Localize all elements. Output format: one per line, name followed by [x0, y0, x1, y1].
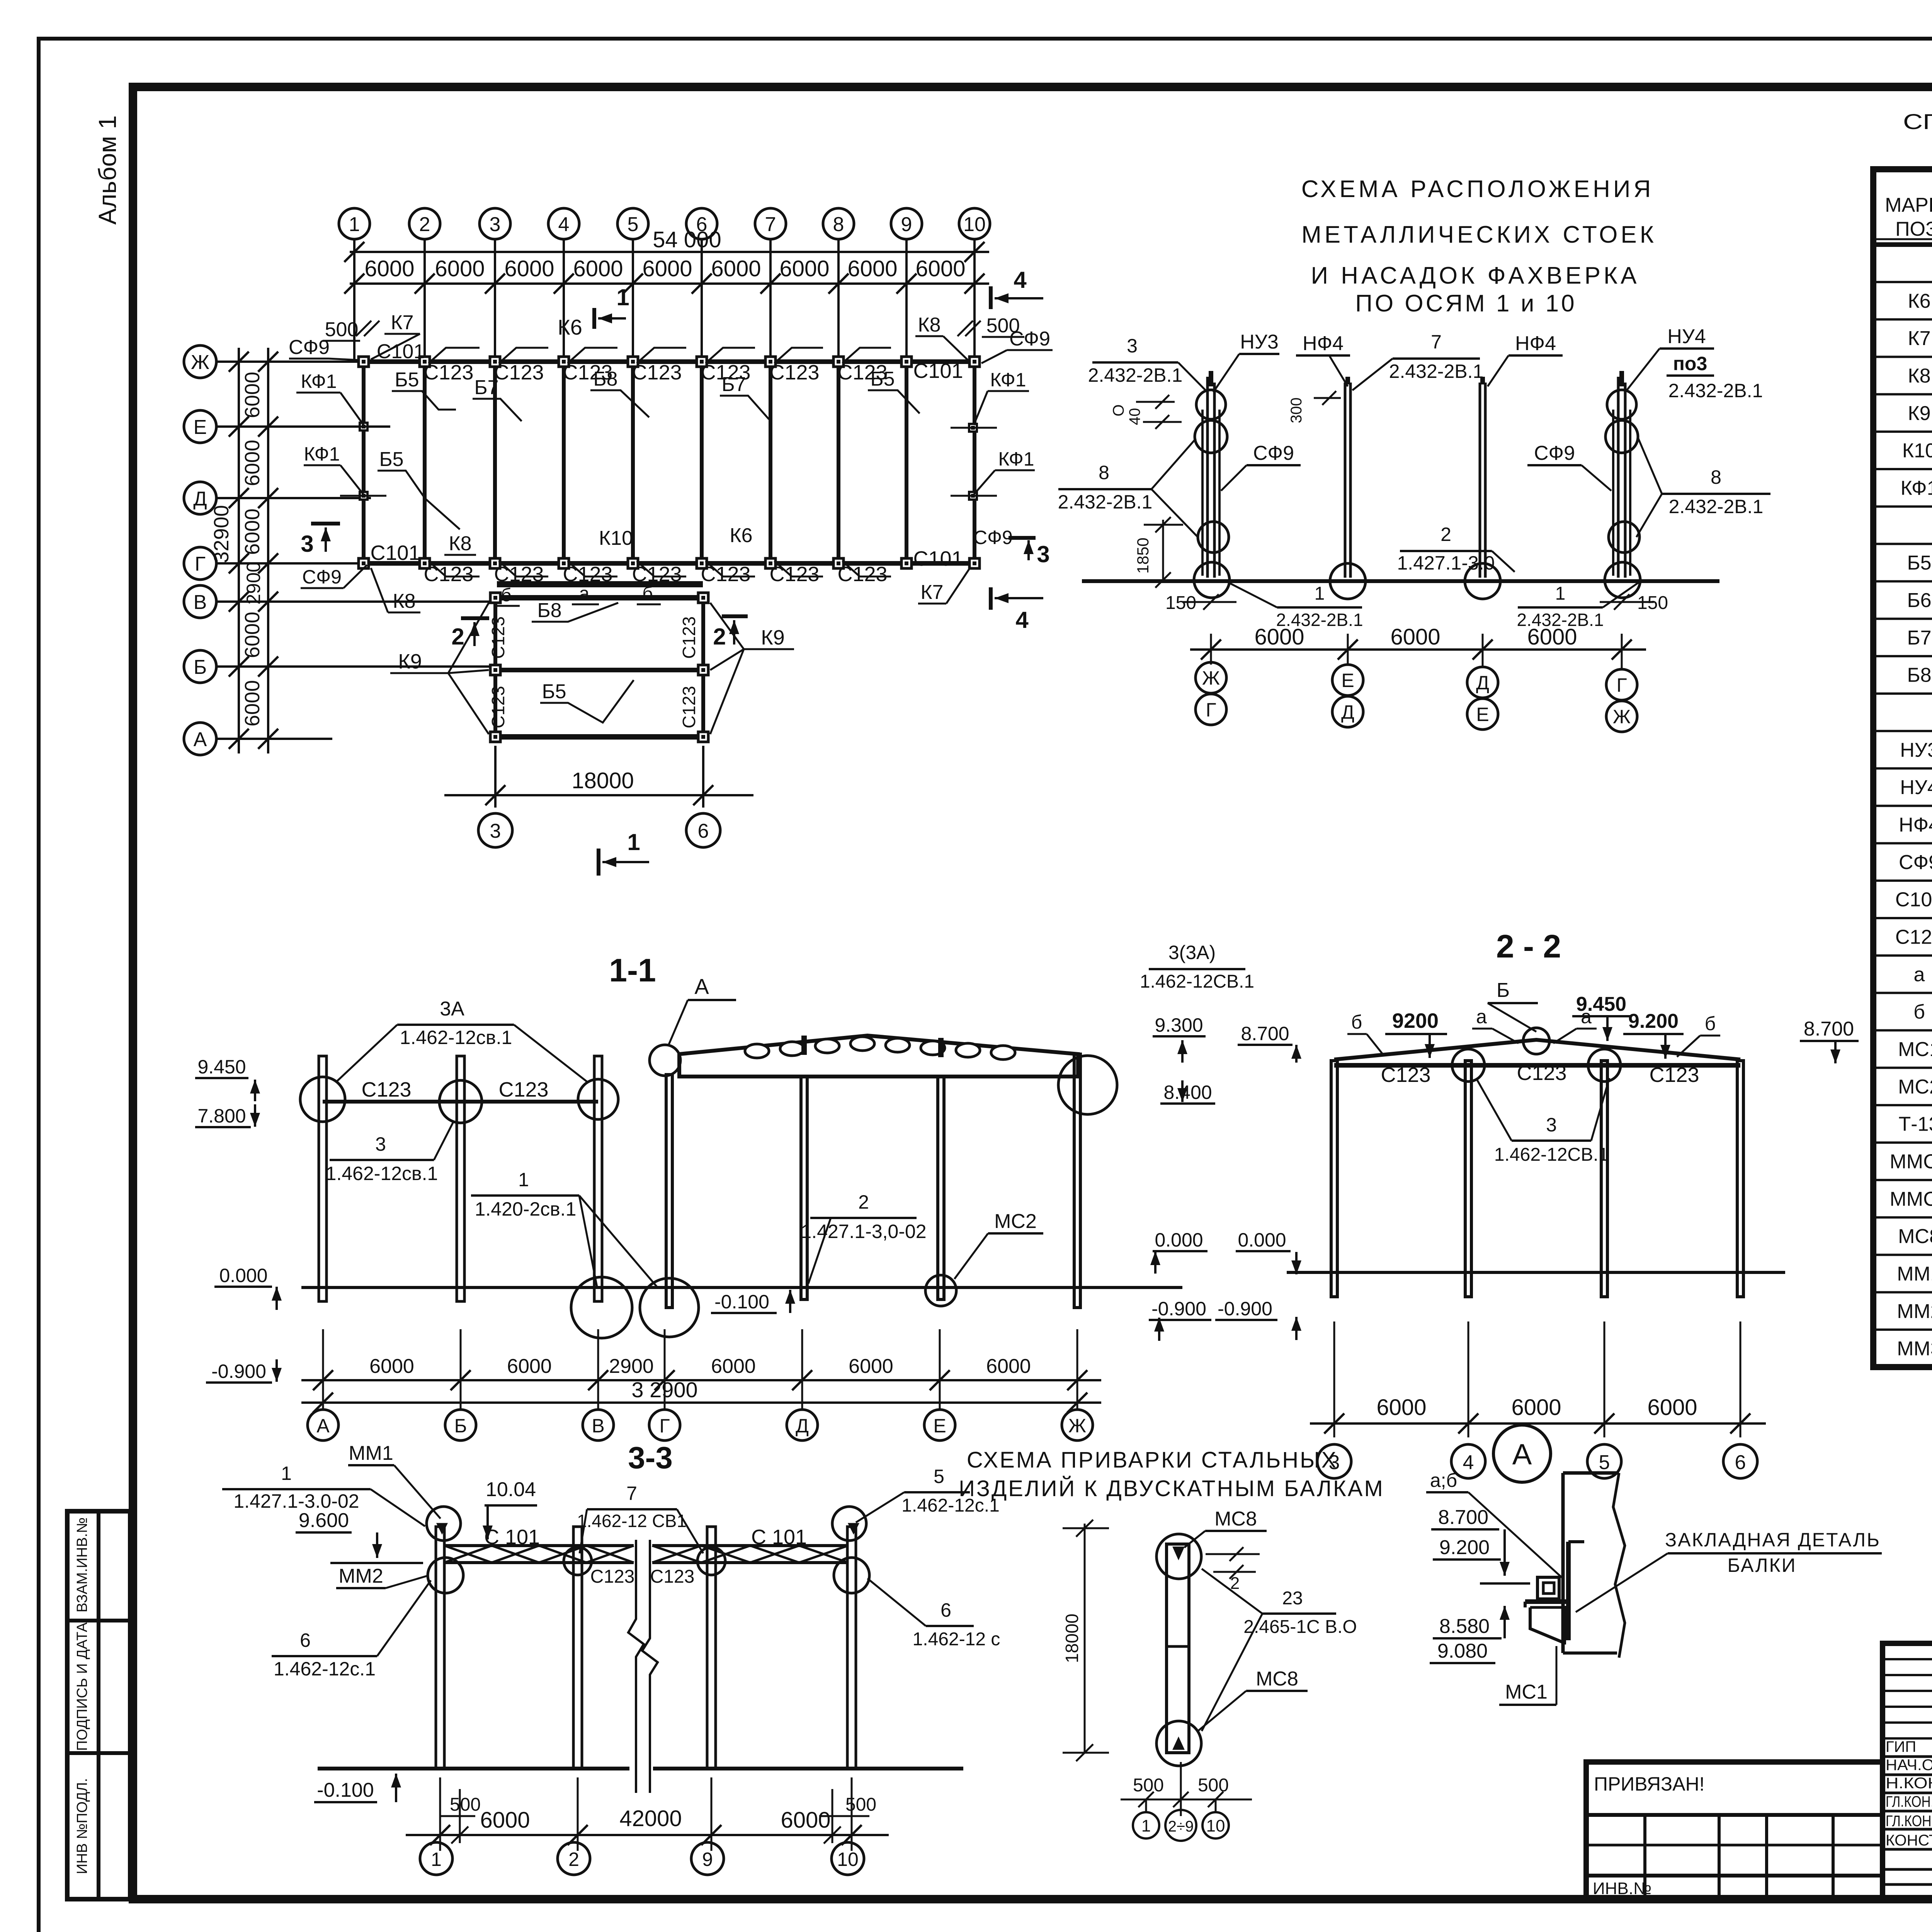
svg-text:НУ4: НУ4 [1667, 325, 1706, 348]
svg-text:23: 23 [1282, 1588, 1303, 1609]
svg-text:6000: 6000 [1376, 1395, 1426, 1420]
svg-text:Б: Б [194, 656, 207, 679]
svg-text:К8: К8 [918, 314, 940, 336]
section 3-3 callout circles [427, 1507, 461, 1541]
svg-text:0.000: 0.000 [219, 1265, 267, 1286]
svg-text:5: 5 [1599, 1451, 1610, 1474]
svg-text:2.432-2В.1: 2.432-2В.1 [1389, 361, 1484, 382]
plan: node squares on chords [359, 357, 369, 367]
detail А embedded plate [1566, 1542, 1571, 1640]
detail А support unit [1537, 1577, 1559, 1599]
svg-text:С101: С101 [1895, 889, 1932, 911]
svg-text:6000: 6000 [369, 1355, 414, 1378]
fachwerk callout circles post 1 [1196, 390, 1226, 419]
svg-text:ММ1: ММ1 [1897, 1263, 1932, 1285]
svg-text:6000: 6000 [435, 256, 485, 281]
svg-text:К9: К9 [761, 626, 785, 649]
svg-text:3: 3 [490, 213, 501, 236]
svg-text:6000: 6000 [241, 509, 264, 555]
svg-text:500: 500 [450, 1794, 481, 1815]
spec table frame [1873, 169, 1932, 1367]
section 2-2 columns [1331, 1061, 1337, 1297]
svg-text:1.462-12 СВ1: 1.462-12 СВ1 [577, 1511, 687, 1531]
svg-text:2: 2 [1440, 524, 1451, 545]
svg-text:6000: 6000 [241, 440, 264, 486]
svg-text:8.700: 8.700 [1241, 1023, 1289, 1044]
svg-text:С123: С123 [494, 361, 544, 384]
svg-text:500: 500 [1133, 1775, 1164, 1796]
svg-text:1.462-12СВ.1: 1.462-12СВ.1 [1140, 971, 1254, 992]
svg-text:К10: К10 [1902, 440, 1932, 462]
svg-text:8: 8 [833, 213, 844, 236]
svg-text:8: 8 [1099, 462, 1109, 483]
svg-text:К9: К9 [1908, 402, 1930, 425]
svg-text:ММС1: ММС1 [1889, 1150, 1932, 1173]
svg-text:С123: С123 [769, 361, 819, 384]
svg-text:А: А [316, 1415, 330, 1437]
svg-text:О: О [1110, 404, 1127, 416]
section 1-1 dimension chain [322, 1329, 324, 1410]
svg-text:К10: К10 [599, 527, 633, 549]
svg-text:2.432-2В.1: 2.432-2В.1 [1088, 364, 1183, 386]
svg-text:3: 3 [301, 531, 313, 557]
plan: section mark 3 left [311, 522, 340, 526]
svg-text:МЕТАЛЛИЧЕСКИХ СТОЕК: МЕТАЛЛИЧЕСКИХ СТОЕК [1301, 221, 1657, 248]
svg-text:Ж: Ж [1613, 706, 1631, 728]
svg-text:1: 1 [627, 829, 640, 855]
svg-text:Б7: Б7 [721, 373, 746, 396]
plan: section mark 2 right [722, 614, 748, 618]
section 3-3 top anchor marks [438, 1524, 446, 1532]
svg-text:С123: С123 [1649, 1063, 1699, 1087]
svg-text:4: 4 [558, 213, 570, 236]
svg-text:Г: Г [195, 553, 206, 575]
svg-text:СХЕМА РАСПОЛОЖЕНИЯ: СХЕМА РАСПОЛОЖЕНИЯ [1301, 176, 1654, 202]
plan: columns K6 row [362, 362, 366, 563]
plan: channel bars а-б under axis Г [497, 581, 703, 587]
svg-text:Е: Е [1476, 704, 1489, 725]
svg-text:6000: 6000 [480, 1808, 530, 1833]
svg-text:6000: 6000 [642, 256, 692, 281]
svg-text:Е: Е [194, 416, 207, 439]
svg-text:6000: 6000 [1511, 1395, 1561, 1420]
plan: section mark 2 left [461, 616, 489, 620]
svg-text:2: 2 [858, 1191, 869, 1213]
svg-text:6000: 6000 [507, 1355, 552, 1378]
plan: dimension chain 6000x9 [350, 282, 989, 285]
svg-text:С123: С123 [423, 361, 473, 384]
svg-text:9.300: 9.300 [1155, 1014, 1203, 1036]
svg-text:1: 1 [349, 213, 360, 236]
svg-text:4: 4 [1014, 267, 1027, 293]
section 1-1 МС2 circle and label [925, 1275, 956, 1306]
svg-text:КФ1: КФ1 [990, 369, 1026, 391]
svg-text:6: 6 [300, 1629, 311, 1651]
svg-text:С123: С123 [701, 563, 750, 586]
svg-text:18000: 18000 [571, 768, 634, 793]
svg-text:С101: С101 [370, 541, 420, 565]
svg-text:Г: Г [1616, 674, 1627, 696]
plan: structure bottom chord (axis Г) [364, 561, 973, 566]
svg-text:К7: К7 [391, 311, 413, 334]
svg-text:2900: 2900 [609, 1355, 654, 1378]
plan: section mark 1 top [592, 308, 596, 329]
svg-text:С123: С123 [837, 563, 887, 586]
fachwerk dimension chain 6000 [1190, 648, 1646, 651]
svg-text:8.400: 8.400 [1163, 1082, 1212, 1103]
svg-text:С123: С123 [769, 563, 819, 586]
svg-text:7: 7 [765, 213, 776, 236]
privyazan block [1586, 1762, 1883, 1899]
svg-text:1.462-12св.1: 1.462-12св.1 [400, 1027, 512, 1048]
section 3-3 break lines [628, 1540, 644, 1793]
section 3-3 truss lattice bay 9-10 [652, 1546, 848, 1563]
svg-text:6000: 6000 [1254, 624, 1304, 650]
svg-text:18000: 18000 [1062, 1614, 1082, 1663]
fachwerk ground line [1082, 579, 1719, 583]
svg-text:КФ1: КФ1 [998, 448, 1034, 470]
svg-text:НФ4: НФ4 [1899, 814, 1932, 836]
svg-text:б: б [1705, 1013, 1716, 1034]
svg-text:9.600: 9.600 [299, 1509, 349, 1532]
svg-text:Б8: Б8 [537, 599, 561, 622]
svg-text:9.200: 9.200 [1628, 1010, 1679, 1032]
section 1-1 callout circles on ties [300, 1077, 345, 1122]
svg-text:ПО ОСЯМ 1 и 10: ПО ОСЯМ 1 и 10 [1355, 290, 1577, 317]
svg-text:6000: 6000 [1527, 624, 1577, 650]
plan: sub-plan axis circles 3 and 6 [478, 813, 512, 847]
svg-text:С123: С123 [488, 686, 508, 728]
svg-text:СФ9: СФ9 [302, 566, 342, 588]
svg-text:Б: Б [454, 1415, 467, 1437]
svg-text:2: 2 [451, 624, 464, 650]
svg-text:Е: Е [933, 1415, 946, 1437]
section 1-1 portal beam with holes [679, 1036, 1078, 1077]
svg-text:1: 1 [616, 284, 629, 310]
svg-text:А: А [1512, 1438, 1532, 1471]
svg-text:1.427.1-3.0: 1.427.1-3.0 [1397, 552, 1495, 574]
svg-text:Б5: Б5 [379, 448, 403, 471]
section 1-1 axis circles [308, 1410, 338, 1440]
svg-text:1.462-12СВ.1: 1.462-12СВ.1 [1494, 1145, 1609, 1165]
svg-text:Д: Д [193, 488, 207, 510]
section 3-3 ground line [318, 1767, 629, 1770]
svg-text:6: 6 [1735, 1451, 1746, 1474]
svg-text:С123: С123 [498, 1078, 548, 1101]
svg-text:С123: С123 [650, 1566, 695, 1587]
svg-text:ММ2: ММ2 [1897, 1300, 1932, 1323]
section 3-3 dimension chain [439, 1777, 441, 1851]
plan: section mark 1 bottom [597, 849, 600, 876]
svg-text:2900: 2900 [243, 561, 264, 604]
svg-text:КОНСТ.IК: КОНСТ.IК [1886, 1832, 1932, 1849]
svg-text:1-1: 1-1 [609, 952, 656, 988]
svg-text:1.420-2св.1: 1.420-2св.1 [475, 1198, 577, 1220]
svg-text:СФ9: СФ9 [973, 527, 1013, 548]
svg-text:НФ4: НФ4 [1303, 332, 1344, 355]
svg-text:К8: К8 [449, 532, 471, 555]
svg-text:Д: Д [1476, 672, 1489, 694]
svg-text:6000: 6000 [986, 1355, 1031, 1378]
svg-text:СПЕЦИФИКАЦИЯ ЭЛЕМЕНТОВ К: СПЕЦИФИКАЦИЯ ЭЛЕМЕНТОВ К СХЕМЕ РАСПОЛОЖЕ… [1903, 109, 1932, 134]
svg-text:9.450: 9.450 [197, 1056, 246, 1078]
svg-text:НУ3: НУ3 [1240, 331, 1279, 353]
svg-text:К9: К9 [398, 650, 422, 673]
svg-text:ММС2: ММС2 [1889, 1188, 1932, 1210]
svg-text:С123: С123 [361, 1078, 411, 1101]
svg-text:3: 3 [375, 1133, 386, 1155]
plan: section mark 4 top right [989, 286, 993, 309]
svg-text:МС2: МС2 [994, 1210, 1037, 1233]
svg-text:500: 500 [845, 1794, 876, 1815]
svg-text:5: 5 [628, 213, 639, 236]
svg-text:МС1: МС1 [1505, 1681, 1548, 1703]
plan: overall dimension line 54000 [350, 251, 989, 253]
svg-text:7: 7 [626, 1483, 637, 1504]
svg-text:НАЧ.ОТД: НАЧ.ОТД [1886, 1757, 1932, 1774]
svg-text:2.432-2В.1: 2.432-2В.1 [1058, 491, 1153, 513]
svg-text:6000: 6000 [364, 256, 414, 281]
svg-text:3: 3 [1127, 335, 1138, 357]
section 3-3 truss lattice bay 1-2 [444, 1546, 634, 1563]
plan: leader fan top row [429, 348, 480, 363]
svg-text:6000: 6000 [781, 1808, 830, 1833]
svg-text:Б6: Б6 [1907, 589, 1931, 612]
svg-text:ГЛ.КОН.ПР.: ГЛ.КОН.ПР. [1886, 1813, 1932, 1830]
svg-text:-0.900: -0.900 [1151, 1298, 1206, 1320]
svg-text:б: б [1913, 1001, 1925, 1023]
svg-text:И НАСАДОК ФАХВЕРКА: И НАСАДОК ФАХВЕРКА [1311, 262, 1640, 289]
svg-text:К7: К7 [920, 581, 943, 604]
svg-text:3: 3 [490, 820, 501, 842]
svg-text:9.080: 9.080 [1437, 1640, 1488, 1662]
svg-text:1: 1 [281, 1463, 292, 1484]
svg-text:А: А [194, 728, 207, 751]
section 1-1 fachwerk columns А Б В [319, 1056, 327, 1301]
svg-text:С 101: С 101 [484, 1526, 540, 1549]
svg-text:4: 4 [1463, 1451, 1474, 1474]
svg-text:Е: Е [1341, 670, 1354, 691]
svg-text:2: 2 [419, 213, 430, 236]
svg-text:1: 1 [518, 1169, 529, 1190]
svg-text:0.000: 0.000 [1238, 1229, 1286, 1251]
svg-text:С123: С123 [1895, 926, 1932, 948]
svg-text:6000: 6000 [711, 256, 761, 281]
plan: section mark 4 bottom right [989, 587, 993, 610]
svg-text:7.800: 7.800 [197, 1105, 246, 1127]
svg-text:ММ1: ММ1 [349, 1442, 393, 1464]
weld callout circles МС8 [1156, 1534, 1201, 1579]
svg-text:-0.900: -0.900 [1218, 1298, 1272, 1320]
svg-text:6000: 6000 [241, 372, 264, 418]
svg-text:40: 40 [1126, 408, 1143, 425]
svg-text:8.700: 8.700 [1804, 1018, 1854, 1040]
svg-text:ММ2: ММ2 [338, 1565, 383, 1587]
fachwerk base circles posts 2,3 [1330, 563, 1366, 599]
svg-text:Б7: Б7 [1907, 627, 1931, 649]
svg-text:Г: Г [1206, 699, 1216, 721]
fachwerk post 3 [1479, 383, 1481, 578]
svg-text:БАЛКИ: БАЛКИ [1727, 1554, 1796, 1576]
svg-text:С101: С101 [377, 340, 425, 363]
svg-text:С123: С123 [632, 361, 682, 384]
svg-text:б: б [642, 583, 653, 604]
svg-text:НУ3: НУ3 [1900, 739, 1932, 761]
svg-text:МАРКА: МАРКА [1885, 194, 1932, 216]
fachwerk post 2 [1344, 383, 1347, 578]
svg-text:а: а [1476, 1006, 1487, 1027]
plan: grid axis circles 1-10 [339, 208, 370, 239]
svg-text:ГИП: ГИП [1886, 1738, 1916, 1755]
svg-text:а: а [579, 583, 590, 604]
svg-text:К8: К8 [393, 590, 415, 612]
svg-text:1.462-12 с: 1.462-12 с [913, 1629, 1000, 1650]
svg-text:СФ9: СФ9 [289, 336, 330, 359]
svg-text:6000: 6000 [241, 612, 264, 658]
svg-text:ЗАКЛАДНАЯ ДЕТАЛЬ: ЗАКЛАДНАЯ ДЕТАЛЬ [1665, 1529, 1881, 1551]
svg-text:1850: 1850 [1134, 537, 1152, 573]
svg-text:Б8: Б8 [593, 368, 617, 390]
svg-text:5: 5 [934, 1466, 944, 1487]
svg-text:10: 10 [1206, 1816, 1225, 1835]
svg-text:0.000: 0.000 [1155, 1229, 1203, 1251]
svg-text:а: а [1914, 963, 1925, 986]
svg-text:7: 7 [1431, 331, 1442, 353]
svg-text:9200: 9200 [1392, 1009, 1439, 1032]
svg-text:ММ3: ММ3 [1897, 1338, 1932, 1360]
svg-text:Б5: Б5 [870, 368, 895, 390]
svg-text:-0.100: -0.100 [317, 1779, 374, 1801]
svg-text:С123: С123 [423, 563, 473, 586]
svg-text:Д: Д [1341, 701, 1354, 723]
svg-text:6000: 6000 [504, 256, 554, 281]
section 3-3 axis circles 1 2 9 10 [420, 1842, 452, 1875]
svg-text:С 101: С 101 [751, 1526, 807, 1549]
svg-text:НУ4: НУ4 [1900, 776, 1932, 799]
svg-text:1.427.1-3.0-02: 1.427.1-3.0-02 [233, 1490, 359, 1512]
svg-text:Б5: Б5 [395, 369, 419, 391]
svg-text:3 2900: 3 2900 [631, 1378, 697, 1402]
svg-text:С123: С123 [1517, 1061, 1566, 1085]
svg-text:Альбом 1: Альбом 1 [94, 116, 121, 225]
section 1-1 base circles [571, 1277, 632, 1338]
section 2-2 column top circles [1452, 1049, 1485, 1082]
svg-text:ИНВ.№: ИНВ.№ [1593, 1879, 1651, 1898]
svg-text:6000: 6000 [849, 1355, 893, 1378]
svg-text:42000: 42000 [619, 1806, 682, 1831]
svg-text:3: 3 [1037, 541, 1049, 567]
svg-text:-0.100: -0.100 [714, 1291, 769, 1313]
section 1-1 tie С123 [323, 1100, 598, 1104]
svg-text:ВЗАМ.ИНВ.№: ВЗАМ.ИНВ.№ [74, 1517, 90, 1612]
svg-text:СФ9: СФ9 [1009, 328, 1050, 350]
svg-text:8: 8 [1711, 466, 1721, 488]
svg-text:Д: Д [796, 1415, 809, 1437]
section 3-3 columns [436, 1527, 444, 1769]
svg-text:32900: 32900 [210, 505, 233, 563]
svg-text:К7: К7 [1908, 327, 1930, 350]
svg-text:300: 300 [1288, 398, 1305, 423]
fachwerk axis circle pairs [1210, 662, 1212, 665]
section 2-2 ground line [1287, 1271, 1785, 1274]
svg-text:С123: С123 [679, 616, 699, 659]
svg-text:2÷9: 2÷9 [1168, 1818, 1194, 1835]
section 1-1 ground line [301, 1286, 1182, 1289]
svg-text:6000: 6000 [847, 256, 897, 281]
svg-text:а;б: а;б [1430, 1469, 1457, 1491]
svg-text:9.200: 9.200 [1439, 1536, 1490, 1559]
svg-text:СФ9: СФ9 [1534, 442, 1575, 464]
weld axis circles 1, 2÷9, 10 [1145, 1799, 1147, 1812]
spec table row lines [1873, 281, 1932, 283]
svg-text:6000: 6000 [915, 256, 965, 281]
svg-text:НФ4: НФ4 [1515, 332, 1556, 355]
svg-text:СФ9: СФ9 [1899, 851, 1932, 874]
detail А wall (column) [1561, 1473, 1565, 1653]
svg-text:1.427.1-3,0-02: 1.427.1-3,0-02 [801, 1221, 926, 1242]
svg-text:6: 6 [940, 1599, 951, 1621]
svg-text:Т-13: Т-13 [1899, 1113, 1932, 1136]
svg-text:54 000: 54 000 [653, 227, 721, 252]
svg-text:10.04: 10.04 [486, 1478, 536, 1501]
fachwerk post axis 1 (СФ9 bundle) [1206, 377, 1209, 578]
fachwerk dim 1850 [1162, 520, 1164, 580]
svg-text:6000: 6000 [241, 680, 264, 726]
svg-text:3-3: 3-3 [628, 1440, 673, 1475]
svg-text:500: 500 [325, 318, 359, 341]
plan: leader fan bottom row [429, 561, 480, 577]
svg-text:4: 4 [1015, 607, 1029, 633]
svg-text:Б7: Б7 [474, 376, 498, 399]
plan: structure top chord (axis Ж) [364, 359, 973, 364]
svg-text:МС8: МС8 [1256, 1668, 1298, 1690]
svg-text:Б5: Б5 [542, 680, 566, 703]
svg-text:СФ9: СФ9 [1253, 442, 1294, 464]
detail А circle [1493, 1425, 1551, 1482]
svg-text:2: 2 [568, 1849, 579, 1870]
title block: left signature table [1883, 1643, 1932, 1899]
svg-text:КФ1: КФ1 [301, 371, 337, 392]
fachwerk post axis 10 (СФ9 bundle) [1617, 377, 1620, 578]
svg-text:ПОДПИСЬ И ДАТА: ПОДПИСЬ И ДАТА [74, 1622, 90, 1751]
svg-text:Ж: Ж [1202, 667, 1220, 689]
section 1-1 portal columns [666, 1075, 672, 1308]
fachwerk small dim 40/40 post1 [1136, 401, 1175, 403]
weld dim 18000 [1084, 1524, 1086, 1753]
svg-text:МС8: МС8 [1214, 1508, 1257, 1530]
svg-text:МС2: МС2 [1898, 1076, 1932, 1098]
svg-text:МС1: МС1 [1898, 1038, 1932, 1061]
svg-text:Б8: Б8 [1907, 664, 1931, 687]
svg-text:9: 9 [702, 1849, 713, 1870]
margin stamp boxes [67, 1511, 130, 1899]
svg-text:2.432-2В.1: 2.432-2В.1 [1668, 380, 1763, 401]
svg-text:КФ1: КФ1 [304, 443, 340, 465]
svg-text:В: В [592, 1415, 604, 1437]
svg-text:3(3А): 3(3А) [1168, 942, 1216, 963]
svg-text:К6: К6 [730, 524, 752, 547]
svg-text:1: 1 [431, 1849, 442, 1870]
svg-text:С123: С123 [679, 686, 699, 728]
svg-text:Ж: Ж [191, 351, 209, 374]
svg-text:б: б [1351, 1011, 1362, 1033]
svg-text:2: 2 [713, 624, 726, 650]
plan: lower sub-plan rectangle [495, 595, 703, 600]
svg-text:8.580: 8.580 [1439, 1615, 1490, 1638]
svg-text:КФ1: КФ1 [1901, 477, 1932, 499]
svg-text:Ж: Ж [1068, 1415, 1086, 1437]
svg-text:6000: 6000 [573, 256, 623, 281]
